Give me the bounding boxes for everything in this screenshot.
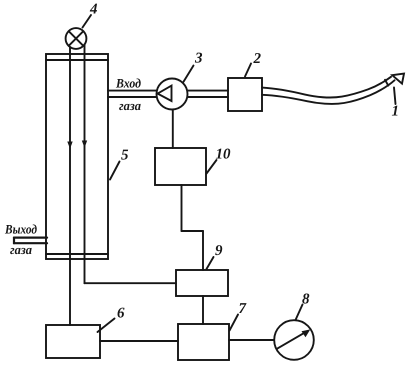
valve 4 (circle with X): [66, 28, 87, 49]
svg-text:газа: газа: [119, 98, 141, 113]
gas outlet stub (Выход газа): [14, 238, 47, 244]
leader line to hose 1: [394, 88, 396, 105]
svg-text:Выход: Выход: [4, 222, 37, 237]
inlet pipe from column to pump 3 (double line): [108, 91, 157, 97]
leader line to box 10: [207, 160, 217, 174]
leader line to valve 4: [83, 15, 92, 28]
svg-text:газа: газа: [10, 242, 32, 257]
leader line to pump 3: [184, 66, 194, 82]
leader line to box 6: [98, 319, 115, 333]
pipe pump 3 to box 2 (double line): [188, 91, 229, 97]
leader line to gauge 8: [296, 305, 303, 321]
leader line to box 2: [245, 64, 251, 77]
wire: box 7 to gauge 8: [229, 339, 274, 341]
gauge needle arrowhead: [302, 329, 311, 337]
column 5 (tall vessel, double top and bottom edges): [46, 54, 108, 259]
wire: pump 3 to box 10: [172, 110, 174, 149]
box 7: [178, 324, 229, 360]
flow arrow on right tube: [82, 141, 87, 148]
wire: box 9 to box 7: [202, 296, 204, 324]
hose tick mark: [385, 80, 388, 86]
svg-text:9: 9: [215, 243, 223, 259]
wire: horizontal run from elbow into box 9 left side: [85, 282, 177, 284]
svg-text:7: 7: [239, 301, 247, 317]
flow arrow on left tube: [67, 142, 72, 149]
wire: box 10 down to jog: [181, 185, 183, 231]
hose tip arrowhead: [392, 74, 404, 84]
wire: right tube line from valve 4 down to elbow: [84, 45, 86, 284]
box 2: [228, 78, 262, 111]
leader line to box 9: [207, 257, 214, 269]
hose 1 (curved sampling probe, double line): [262, 77, 395, 104]
leader line to box 7: [230, 315, 239, 331]
pump 3 (circle with left-pointing triangle): [157, 79, 188, 110]
box 10: [155, 148, 206, 185]
wire: jog down into box 9: [202, 231, 204, 270]
leader line to column 5: [110, 162, 120, 180]
box 9: [176, 270, 228, 296]
svg-text:2: 2: [253, 51, 262, 67]
box 6: [46, 325, 100, 358]
wire: box 6 to box 7: [100, 340, 178, 342]
svg-text:1: 1: [392, 104, 400, 120]
wire: left tube line from valve 4 down to box 6: [69, 47, 71, 325]
svg-text:Вход: Вход: [115, 76, 141, 91]
svg-text:5: 5: [121, 148, 129, 164]
svg-text:6: 6: [117, 306, 125, 322]
svg-text:3: 3: [194, 51, 203, 67]
svg-text:10: 10: [216, 147, 232, 163]
wire: jog horizontal: [182, 230, 204, 232]
gauge 8 (circle with needle): [274, 320, 314, 360]
